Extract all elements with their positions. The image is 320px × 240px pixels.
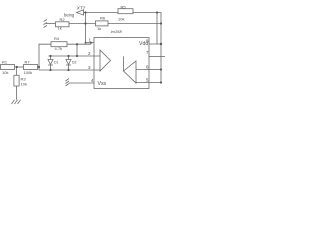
- junction dot rail y56 x77: [76, 55, 78, 57]
- junction dot pin6 x161: [160, 68, 162, 70]
- diode D1: [48, 60, 53, 66]
- junction dot rail y70 x68.5: [67, 69, 69, 71]
- svg-text:being: being: [64, 12, 75, 17]
- svg-text:1: 1: [89, 38, 92, 43]
- wire R3 to ground: [16, 86, 18, 100]
- junction dot rail y56 x68.5: [67, 55, 69, 57]
- wire rail y56 diode tops to pin 2: [49, 55, 101, 57]
- op-amp B triangle: [124, 61, 137, 83]
- wire down from node to R3: [16, 67, 18, 75]
- wire R5 right to top-right corner and down right edge to pin 5: [133, 13, 161, 83]
- wire vertical x77: [76, 44, 78, 56]
- junction dot pin1 net x91: [90, 42, 92, 44]
- svg-text:Vdd: Vdd: [139, 41, 148, 47]
- wire pin 7 to right edge: [149, 55, 165, 57]
- wire left branch corner to R4: [39, 44, 51, 70]
- resistor R5: [118, 9, 133, 14]
- svg-text:3: 3: [88, 65, 91, 70]
- op-amp A triangle: [100, 50, 111, 71]
- svg-text:4: 4: [91, 78, 94, 83]
- junction dot top rail x157: [156, 11, 158, 13]
- svg-text:D1: D1: [54, 61, 59, 65]
- resistor R7: [24, 65, 38, 70]
- junction dot rail y56 x50.5: [49, 55, 51, 57]
- svg-text:4.7k: 4.7k: [55, 46, 63, 51]
- diode D2 legs: [68, 56, 70, 70]
- svg-text:XT?: XT?: [76, 6, 86, 11]
- svg-text:Vss: Vss: [98, 81, 107, 87]
- wire pin 4 to ground: [69, 82, 94, 84]
- wire stub up from R4 net to pin1 net: [90, 43, 92, 45]
- junction dot right edge x161 y22: [160, 22, 162, 24]
- junction dot rail y70 x50.5: [49, 69, 51, 71]
- svg-text:100k: 100k: [24, 70, 33, 75]
- svg-text:D2: D2: [72, 61, 77, 65]
- resistor R1 (RT): [1, 65, 15, 70]
- wire rail y70 R7 to pin 3: [38, 67, 101, 70]
- resistor R6: [96, 21, 109, 26]
- wire top rail from arrow to R5: [84, 12, 119, 14]
- svg-text:R7: R7: [25, 59, 31, 64]
- op-amp B input lines: [136, 70, 149, 83]
- svg-text:10k: 10k: [118, 17, 124, 22]
- resistor R2: [56, 22, 70, 27]
- wire pin 6 stub: [149, 69, 161, 71]
- svg-text:2: 2: [88, 51, 91, 56]
- junction dot rail y70 x17: [16, 66, 18, 68]
- op-amp A input lines: [94, 56, 100, 70]
- svg-text:10k: 10k: [21, 82, 27, 87]
- diode D1 legs: [50, 56, 52, 70]
- wire rail B R6 to right edge vertical: [108, 23, 161, 25]
- op-amp B output path to pin 7: [123, 56, 125, 71]
- junction dot pin5 x161: [160, 81, 162, 83]
- wire rail B R2 to R6: [69, 23, 96, 25]
- diode D2: [66, 60, 71, 66]
- junction dot top rail x86: [84, 11, 86, 13]
- svg-text:1k: 1k: [58, 26, 62, 31]
- wire vertical x85 down to pin 1: [85, 13, 87, 43]
- junction dot pin1 corner x85.5: [85, 42, 87, 44]
- svg-text:10k: 10k: [2, 70, 8, 75]
- junction dot rail B x86: [84, 22, 86, 24]
- ground at pin 4: [66, 79, 70, 87]
- junction dot R4 net x77: [76, 43, 78, 45]
- connector XT arrow: [77, 10, 84, 15]
- wire R4 right to corner: [67, 43, 91, 45]
- wire pin 8 stub and vertical to top rail: [149, 13, 161, 45]
- junction dot pin8 x161: [160, 43, 162, 45]
- op-amp U1 body: [94, 38, 149, 89]
- svg-text:R2: R2: [60, 17, 66, 22]
- svg-text:R6: R6: [100, 16, 106, 21]
- ground left of R2: [44, 20, 48, 28]
- svg-text:lm358: lm358: [111, 29, 123, 34]
- junction dot rail y70 x39: [38, 66, 40, 68]
- svg-text:1k: 1k: [97, 26, 101, 31]
- svg-text:R4: R4: [54, 36, 60, 41]
- wire rail B gnd to R2: [46, 23, 56, 25]
- wire rail y70 RT1 to R7: [15, 66, 24, 68]
- wire pin 1 and internal feedback line: [86, 43, 115, 61]
- svg-text:R5: R5: [121, 5, 127, 10]
- ground bottom left: [12, 100, 21, 104]
- svg-text:R1: R1: [2, 59, 8, 64]
- resistor R4: [51, 42, 67, 47]
- resistor R3 vertical: [14, 75, 19, 86]
